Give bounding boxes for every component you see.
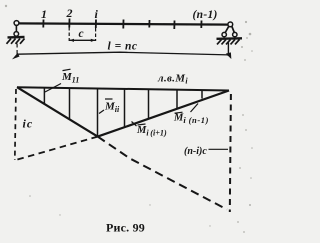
left support pin circle [14, 21, 19, 26]
intermediate node tick a [122, 20, 124, 29]
ordinate at node i [97, 89, 99, 137]
svg-text:c: c [79, 28, 84, 40]
svg-text:2: 2 [66, 6, 73, 20]
svg-text:ic: ic [23, 117, 34, 131]
right support left leg [225, 26, 229, 33]
label Mi(n-1) overbar [175, 112, 183, 113]
ordinate at node i+3 [176, 89, 178, 108]
ordinate at node 2 [69, 88, 71, 119]
svg-text:M11: M11 [61, 71, 79, 85]
c dimension left arrowhead [69, 39, 74, 42]
left support link [15, 25, 17, 32]
ordinate at node n-1 [201, 90, 203, 99]
label M11 overbar [63, 69, 71, 70]
right support right leg [232, 26, 235, 33]
influence line top chord [17, 87, 229, 90]
right influence diagonal dashed extension [14, 137, 98, 161]
svg-text:l = nc: l = nc [108, 41, 138, 53]
l=nc right extension line [227, 43, 229, 57]
svg-text:(n-i)c: (n-i)c [184, 146, 207, 157]
l=nc dimension line [17, 52, 228, 55]
svg-text:л.в.Mi: л.в.Mi [157, 73, 188, 86]
svg-text:(n-1): (n-1) [193, 9, 218, 21]
svg-text:Рис. 99: Рис. 99 [106, 221, 145, 235]
label Mi(n-1) leader [191, 104, 199, 113]
intermediate node tick c [173, 21, 175, 30]
ordinate at node i+1 [124, 89, 126, 127]
beam [17, 23, 231, 24]
intermediate node tick b [148, 20, 150, 28]
svg-text:Mi (i+1): Mi (i+1) [136, 125, 167, 138]
right support left roller circle [222, 32, 226, 36]
c dimension line [69, 39, 95, 41]
label Mi(i+1) overbar [138, 124, 146, 125]
ordinate at node 1 [43, 88, 45, 105]
left influence diagonal dashed extension [98, 137, 227, 210]
l=nc left arrowhead [12, 53, 20, 60]
svg-text:1: 1 [41, 7, 47, 21]
dashed drop under left corner [15, 89, 16, 160]
node 2 tick [68, 19, 70, 28]
dashed drop under right corner [230, 94, 231, 212]
scan speckles [5, 5, 253, 233]
left influence diagonal (solid) [17, 87, 98, 136]
right support pin circle [228, 22, 233, 27]
label Mii leader [99, 110, 104, 114]
c dimension left extension line [68, 27, 70, 41]
left support ground hatching [7, 37, 25, 44]
right support ground hatching [217, 38, 243, 44]
l=nc right arrowhead [226, 52, 232, 59]
node (n-1) tick [200, 21, 202, 29]
c dimension right arrowhead [91, 39, 96, 42]
node 1 tick [42, 20, 44, 28]
label M11 leader [45, 84, 61, 93]
label Mi(i+1) leader [132, 122, 137, 127]
ordinate at node i+2 [148, 89, 150, 119]
label Mii overbar [105, 98, 113, 100]
label (n-i)c leader [209, 148, 229, 150]
svg-text:i: i [95, 7, 99, 21]
right support right roller circle [233, 32, 237, 36]
c dimension right extension line [95, 28, 97, 41]
svg-text:Mii: Mii [104, 101, 120, 115]
right influence diagonal (solid) [98, 91, 229, 137]
svg-text:Mi (n-1): Mi (n-1) [173, 113, 209, 126]
left support lower hinge circle [14, 32, 19, 37]
node i tick [95, 20, 97, 29]
l=nc dimension left extension dash [16, 44, 18, 55]
